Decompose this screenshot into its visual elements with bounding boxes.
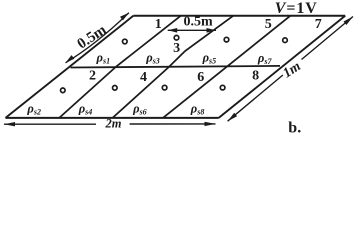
svg-text:V=1V: V=1V [275,0,318,17]
svg-text:b.: b. [288,120,301,137]
svg-text:4: 4 [140,70,147,85]
cell center marker circle 2 [61,88,66,93]
1m slant dimension arrow (along right edge) [228,17,353,122]
cell center marker circle 8 [220,85,225,90]
right slanted edge [219,16,346,118]
0.5m horizontal dimension arrow (top, between dividers) [168,28,216,33]
svg-text:7: 7 [315,17,322,32]
cell center marker circle 1 [123,39,128,44]
left slanted edge [6,16,134,118]
top edge of grid [133,15,345,17]
cell center marker circle 6 [162,85,167,90]
cell center marker circle 5 [224,37,229,42]
svg-text:2m: 2m [105,116,122,130]
svg-text:5: 5 [265,17,272,32]
svg-text:8: 8 [252,68,259,83]
svg-text:0.5m: 0.5m [184,15,214,30]
divider 3 (between columns 3-4) [163,16,290,118]
bottom edge of grid [6,117,219,119]
cell center marker circle 7 [283,38,288,43]
svg-text:1: 1 [155,17,162,32]
0.5m slant dimension line (along left edge) [66,13,129,63]
svg-text:3: 3 [173,41,180,56]
cell center marker circle 3 [174,35,179,40]
divider 2 (between columns 2-3) [113,16,234,118]
2m bottom dimension arrow [4,122,216,127]
divider 1 (between columns 1-2) [59,16,181,118]
svg-text:2: 2 [89,68,96,83]
middle horizontal grid line [71,66,281,68]
cell center marker circle 4 [113,86,118,91]
svg-text:6: 6 [197,70,204,85]
